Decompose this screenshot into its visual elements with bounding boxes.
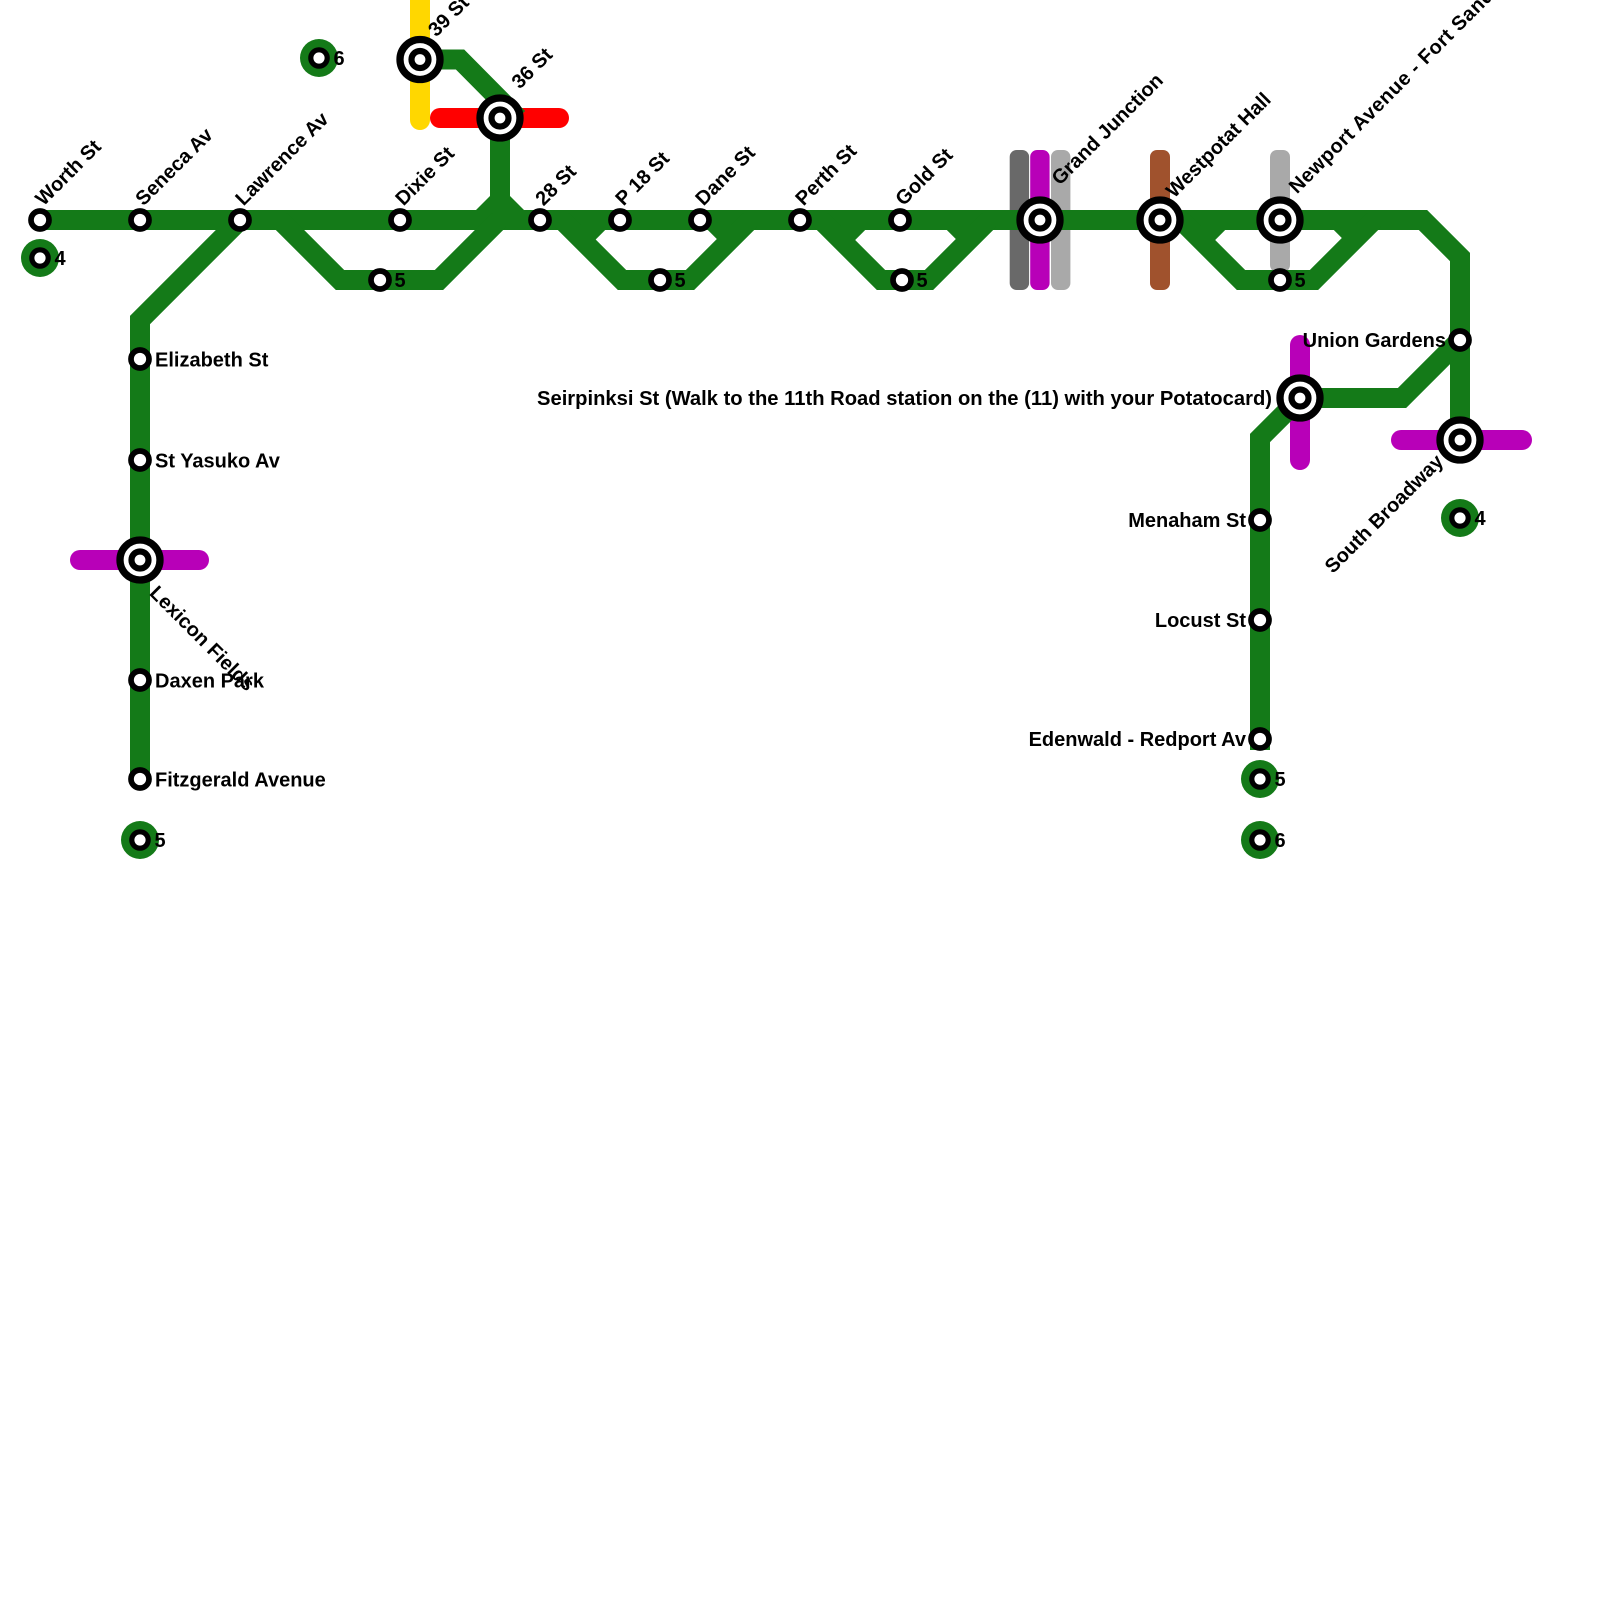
- svg-text:Gold St: Gold St: [892, 144, 958, 210]
- svg-text:Westpotat Hall: Westpotat Hall: [1162, 89, 1276, 203]
- svg-text:39 St: 39 St: [424, 0, 474, 41]
- svg-text:5: 5: [917, 270, 928, 292]
- svg-text:Fitzgerald Avenue: Fitzgerald Avenue: [155, 770, 326, 792]
- svg-text:Dane St: Dane St: [692, 142, 760, 210]
- svg-text:28 St: 28 St: [532, 161, 582, 211]
- svg-text:Union Gardens: Union Gardens: [1303, 330, 1446, 352]
- svg-text:Elizabeth St: Elizabeth St: [155, 350, 269, 372]
- svg-text:6: 6: [334, 48, 345, 70]
- svg-text:Grand Junction: Grand Junction: [1048, 70, 1168, 190]
- svg-text:4: 4: [1475, 508, 1487, 530]
- svg-text:Perth St: Perth St: [792, 140, 862, 210]
- svg-text:P 18 St: P 18 St: [612, 147, 675, 210]
- svg-text:5: 5: [1295, 270, 1306, 292]
- svg-text:Dixie St: Dixie St: [392, 142, 460, 210]
- svg-text:Seneca Av: Seneca Av: [132, 123, 219, 210]
- svg-text:Newport Avenue - Fort Sanders: Newport Avenue - Fort Sanders: [1285, 0, 1521, 198]
- svg-text:5: 5: [1275, 769, 1286, 791]
- svg-text:Edenwald - Redport Av: Edenwald - Redport Av: [1029, 729, 1247, 751]
- svg-text:South Broadway: South Broadway: [1321, 450, 1449, 578]
- svg-text:4: 4: [55, 248, 67, 270]
- svg-text:Worth St: Worth St: [32, 136, 106, 210]
- svg-text:Lawrence Av: Lawrence Av: [232, 108, 334, 210]
- svg-text:5: 5: [155, 830, 166, 852]
- svg-text:St Yasuko Av: St Yasuko Av: [155, 451, 281, 473]
- svg-text:36 St: 36 St: [508, 44, 558, 94]
- svg-text:Locust St: Locust St: [1155, 610, 1246, 632]
- svg-text:Seirpinksi St (Walk to the 11t: Seirpinksi St (Walk to the 11th Road sta…: [537, 388, 1272, 410]
- svg-text:6: 6: [1275, 830, 1286, 852]
- svg-text:5: 5: [675, 270, 686, 292]
- svg-text:Menaham St: Menaham St: [1128, 510, 1246, 532]
- svg-text:5: 5: [395, 270, 406, 292]
